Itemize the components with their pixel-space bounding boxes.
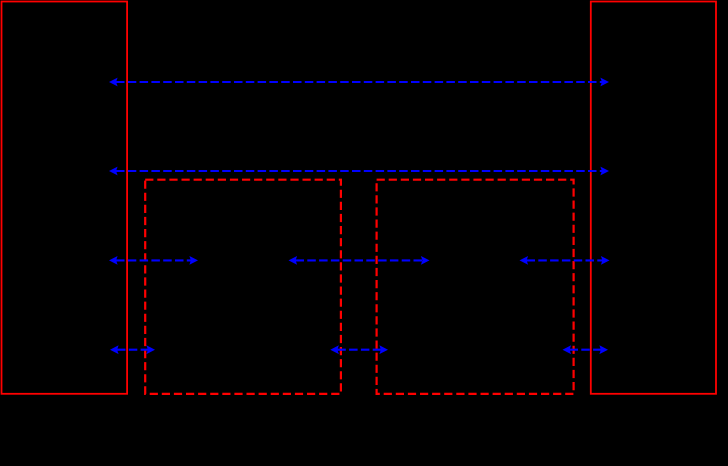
arrow row 1 (109, 78, 609, 87)
arrow row 4 segment a (110, 345, 155, 354)
arrow row 2 (109, 167, 609, 176)
arrow row 4 segment b (330, 345, 388, 354)
arrow row 3 segment b (289, 256, 430, 265)
arrow row 3 segment c (520, 256, 610, 265)
right outer box (591, 2, 716, 394)
left middle dashed box (145, 180, 341, 394)
arrow row 4 segment c (563, 345, 609, 354)
right middle dashed box (377, 180, 574, 394)
left outer box (2, 2, 128, 394)
arrow row 3 segment a (109, 256, 198, 265)
